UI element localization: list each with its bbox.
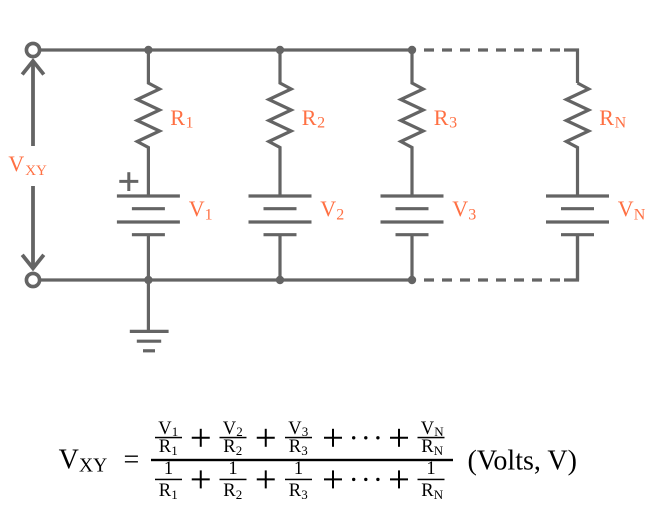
- svg-text:R: R: [599, 105, 614, 130]
- node top branch3: [408, 46, 416, 54]
- svg-text:3: 3: [301, 443, 308, 458]
- formula main fraction bar: [151, 459, 453, 461]
- svg-text:(Volts, V): (Volts, V): [468, 446, 577, 477]
- formula: [59, 419, 577, 502]
- svg-text:R: R: [289, 481, 302, 501]
- wire bottom-right corner: [564, 235, 578, 280]
- terminal Y (bottom-left open circle): [26, 273, 39, 286]
- svg-text:V: V: [158, 419, 172, 439]
- svg-text:3: 3: [301, 487, 308, 502]
- svg-text:V: V: [618, 196, 634, 221]
- svg-text:N: N: [434, 487, 444, 502]
- node bottom branch2: [276, 276, 284, 284]
- svg-text:N: N: [615, 114, 627, 131]
- battery V3: [381, 194, 444, 197]
- svg-text:V: V: [189, 196, 205, 221]
- resistor R2: [269, 50, 291, 196]
- wire battery V2 to bottom rail: [278, 235, 281, 280]
- formula cdots: [352, 436, 355, 439]
- wire arrow shaft upper: [31, 62, 35, 146]
- svg-text:1: 1: [205, 207, 213, 224]
- wire top rail: [41, 48, 412, 51]
- V_XY double arrow: [22, 61, 44, 268]
- node top branch1: [144, 46, 152, 54]
- node junction dots: [144, 46, 416, 284]
- svg-text:XY: XY: [79, 455, 107, 476]
- svg-text:R: R: [170, 105, 185, 130]
- svg-text:XY: XY: [25, 163, 47, 179]
- resistor R3: [401, 50, 423, 196]
- terminal X (top-left open circle): [26, 43, 39, 56]
- svg-text:3: 3: [468, 207, 476, 224]
- svg-text:R: R: [421, 481, 434, 501]
- wire battery V3 to bottom rail: [410, 235, 413, 280]
- svg-text:1: 1: [171, 487, 178, 502]
- node top branch2: [276, 46, 284, 54]
- svg-text:V: V: [452, 196, 468, 221]
- node bottom branch1: [144, 276, 152, 284]
- svg-text:1: 1: [164, 459, 173, 479]
- svg-text:V: V: [8, 151, 24, 176]
- svg-text:3: 3: [449, 114, 457, 131]
- wire battery V1 to bottom rail: [147, 235, 150, 280]
- svg-text:=: =: [124, 445, 140, 476]
- svg-text:2: 2: [236, 487, 243, 502]
- wire top-right corner: [564, 50, 578, 83]
- svg-text:1: 1: [294, 459, 303, 479]
- svg-text:V: V: [288, 419, 302, 439]
- svg-text:2: 2: [336, 207, 344, 224]
- svg-text:V: V: [421, 419, 435, 439]
- svg-text:R: R: [223, 437, 236, 457]
- wire arrow shaft lower: [31, 186, 35, 267]
- resistor RN: [566, 83, 588, 196]
- svg-text:R: R: [421, 437, 434, 457]
- svg-text:1: 1: [426, 459, 435, 479]
- svg-text:R: R: [302, 105, 317, 130]
- ground: [130, 280, 169, 351]
- formula plus signs: [192, 429, 408, 489]
- plus sign battery V1: [119, 172, 138, 191]
- svg-text:1: 1: [171, 443, 178, 458]
- node bottom branch3: [408, 276, 416, 284]
- svg-text:N: N: [634, 207, 646, 224]
- svg-text:N: N: [434, 443, 444, 458]
- svg-text:R: R: [289, 437, 302, 457]
- svg-text:2: 2: [317, 114, 325, 131]
- wire battery VN to bottom rail: [576, 235, 579, 280]
- battery V2: [249, 194, 312, 197]
- svg-text:R: R: [159, 481, 172, 501]
- arrowhead down: [22, 255, 44, 268]
- svg-text:R: R: [159, 437, 172, 457]
- svg-text:V: V: [320, 196, 336, 221]
- svg-text:2: 2: [236, 443, 243, 458]
- wire top rail dashed: [424, 48, 562, 51]
- labels orange: [8, 105, 645, 224]
- svg-text:R: R: [223, 481, 236, 501]
- svg-text:V: V: [59, 445, 79, 476]
- svg-text:R: R: [434, 105, 449, 130]
- battery VN: [546, 194, 609, 197]
- wire bottom rail: [41, 278, 412, 281]
- svg-text:1: 1: [228, 459, 237, 479]
- svg-text:1: 1: [186, 114, 194, 131]
- resistor R1: [137, 50, 159, 196]
- battery V1: [117, 194, 180, 197]
- svg-text:V: V: [223, 419, 237, 439]
- wire bottom rail dashed: [424, 278, 562, 281]
- arrowhead up: [22, 61, 44, 75]
